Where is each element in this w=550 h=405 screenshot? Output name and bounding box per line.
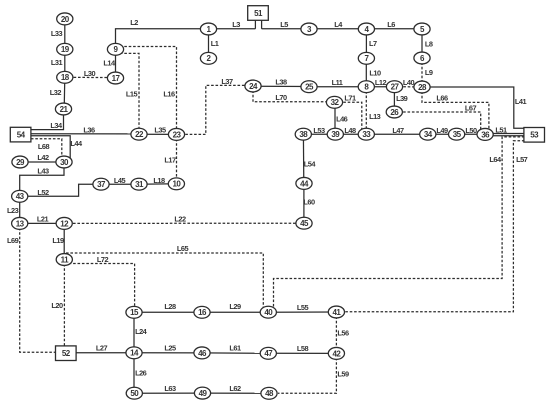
- wire L32: [50, 77, 65, 109]
- svg-text:28: 28: [418, 83, 427, 92]
- bus 46: [194, 347, 210, 359]
- svg-text:34: 34: [424, 130, 433, 139]
- bus 38: [295, 128, 311, 140]
- bus 30: [56, 156, 72, 168]
- wire L14: [103, 49, 116, 78]
- svg-text:20: 20: [61, 15, 70, 24]
- svg-text:L51: L51: [495, 126, 507, 135]
- wire L56: [336, 312, 349, 353]
- bus 33: [358, 128, 374, 140]
- substation 53: [524, 128, 545, 143]
- svg-text:L52: L52: [37, 188, 49, 197]
- wire L3: [209, 20, 256, 29]
- wire L68: [31, 139, 62, 158]
- bus 27: [386, 81, 402, 93]
- svg-text:33: 33: [362, 130, 371, 139]
- svg-text:L37: L37: [221, 77, 233, 86]
- wire L64: [274, 137, 525, 312]
- wire L40: [395, 78, 423, 87]
- wire L35: [139, 126, 177, 135]
- svg-text:L71: L71: [344, 94, 356, 103]
- svg-text:L18: L18: [153, 176, 165, 185]
- svg-text:L59: L59: [337, 370, 349, 379]
- svg-text:35: 35: [453, 130, 462, 139]
- wire L16: [116, 47, 177, 131]
- bus 28: [414, 81, 430, 93]
- wire L29: [202, 302, 268, 312]
- svg-text:L3: L3: [232, 20, 240, 29]
- wire L49: [428, 126, 457, 135]
- svg-text:46: 46: [198, 349, 207, 358]
- svg-text:L4: L4: [334, 20, 343, 29]
- bus 44: [296, 177, 312, 189]
- wire L38: [253, 78, 309, 87]
- bus 3: [301, 23, 317, 35]
- svg-text:L65: L65: [177, 244, 189, 253]
- wire L45: [101, 176, 139, 185]
- wire L26: [134, 353, 147, 393]
- wire L55: [268, 303, 336, 312]
- wire L28: [134, 302, 202, 312]
- svg-text:30: 30: [60, 158, 69, 167]
- svg-text:L8: L8: [425, 40, 433, 49]
- svg-text:12: 12: [60, 219, 69, 228]
- svg-text:37: 37: [97, 180, 106, 189]
- bus 25: [301, 81, 317, 93]
- bus 34: [420, 128, 436, 140]
- svg-text:51: 51: [254, 9, 263, 18]
- svg-text:L40: L40: [403, 78, 415, 87]
- svg-text:L62: L62: [229, 384, 241, 393]
- bus 17: [107, 72, 123, 84]
- wire L18: [139, 176, 176, 185]
- svg-text:L23: L23: [7, 206, 19, 215]
- bus 1: [200, 23, 216, 35]
- svg-text:L12: L12: [375, 78, 387, 87]
- wire L61: [202, 344, 268, 354]
- bus 41: [328, 306, 344, 318]
- svg-text:L10: L10: [369, 69, 381, 78]
- svg-text:L31: L31: [51, 58, 63, 67]
- wire L1: [209, 29, 219, 58]
- svg-text:L9: L9: [425, 68, 433, 77]
- bus 42: [328, 347, 344, 359]
- wire L11: [309, 78, 366, 87]
- wire L44: [31, 136, 83, 159]
- svg-text:L13: L13: [369, 112, 381, 121]
- bus 20: [57, 13, 73, 25]
- bus 36: [477, 128, 493, 140]
- wire L39: [394, 87, 407, 112]
- svg-text:21: 21: [60, 105, 69, 114]
- svg-text:L63: L63: [164, 384, 176, 393]
- svg-text:L36: L36: [83, 126, 95, 135]
- wire L13: [366, 87, 380, 135]
- svg-text:L35: L35: [154, 126, 166, 135]
- wire L65: [66, 244, 263, 312]
- bus 47: [260, 347, 276, 359]
- wire L48: [335, 126, 366, 135]
- bus 19: [57, 43, 73, 55]
- wire L19: [52, 223, 64, 259]
- bus 39: [327, 128, 343, 140]
- svg-text:26: 26: [390, 108, 399, 117]
- svg-text:L11: L11: [332, 78, 343, 87]
- svg-text:47: 47: [264, 349, 273, 358]
- svg-text:44: 44: [300, 179, 309, 188]
- bus 4: [358, 23, 374, 35]
- svg-text:18: 18: [61, 73, 70, 82]
- svg-text:38: 38: [299, 130, 308, 139]
- wire L24: [134, 312, 148, 353]
- svg-text:L60: L60: [303, 197, 315, 206]
- wire L9: [422, 58, 433, 87]
- svg-text:32: 32: [331, 98, 340, 107]
- svg-text:L26: L26: [135, 369, 147, 378]
- wire 51lega: [254, 21, 256, 29]
- svg-text:27: 27: [391, 83, 400, 92]
- wire L2: [116, 18, 209, 49]
- svg-text:53: 53: [530, 131, 539, 140]
- svg-text:L2: L2: [130, 18, 138, 27]
- svg-text:L15: L15: [126, 90, 138, 99]
- svg-text:L32: L32: [50, 88, 62, 97]
- svg-text:17: 17: [112, 74, 121, 83]
- wire L60: [303, 183, 315, 223]
- wire L62: [203, 384, 270, 393]
- svg-text:L42: L42: [37, 153, 49, 162]
- svg-text:10: 10: [172, 180, 181, 189]
- svg-text:L17: L17: [164, 156, 176, 165]
- svg-text:L27: L27: [96, 344, 108, 353]
- wire L8: [422, 29, 433, 58]
- svg-text:L55: L55: [297, 303, 309, 312]
- svg-text:L19: L19: [52, 236, 64, 245]
- svg-text:L20: L20: [51, 301, 63, 310]
- svg-text:L21: L21: [37, 214, 49, 223]
- wire L20: [51, 260, 64, 347]
- wire L17: [164, 134, 176, 183]
- bus 2: [200, 52, 216, 64]
- bus 12: [56, 217, 72, 229]
- bus 7: [358, 52, 374, 64]
- wire L42: [20, 153, 64, 162]
- svg-text:42: 42: [332, 349, 341, 358]
- bus 32: [326, 96, 342, 108]
- wire L27: [76, 344, 134, 353]
- wire L5: [262, 20, 309, 29]
- bus 15: [126, 306, 142, 318]
- svg-text:L70: L70: [275, 93, 287, 102]
- wire L22: [64, 214, 304, 223]
- svg-text:L34: L34: [50, 121, 63, 130]
- wire L31: [51, 49, 65, 77]
- wire L46: [335, 102, 348, 134]
- bus 40: [260, 306, 276, 318]
- bus 49: [194, 387, 210, 399]
- wire L72: [64, 255, 134, 308]
- bus 11: [56, 254, 72, 266]
- svg-text:L5: L5: [280, 20, 288, 29]
- svg-text:L49: L49: [436, 126, 448, 135]
- svg-text:16: 16: [198, 308, 207, 317]
- bus 18: [57, 71, 73, 83]
- svg-text:40: 40: [264, 308, 273, 317]
- bus 13: [12, 217, 28, 229]
- wire L70: [253, 86, 330, 102]
- bus 29: [12, 156, 28, 168]
- bus 8: [358, 81, 374, 93]
- svg-text:19: 19: [61, 45, 70, 54]
- bus 16: [194, 306, 210, 318]
- svg-text:L43: L43: [37, 166, 49, 175]
- svg-text:43: 43: [16, 192, 25, 201]
- svg-text:L6: L6: [387, 20, 395, 29]
- wire L21: [20, 214, 64, 223]
- wire L43: [20, 162, 64, 196]
- wire L37: [177, 77, 254, 134]
- bus 37: [93, 178, 109, 190]
- bus 24: [245, 80, 261, 92]
- svg-text:L38: L38: [275, 78, 287, 87]
- wire 51legb: [261, 21, 263, 29]
- wire L69: [7, 223, 56, 352]
- wire L41: [422, 87, 526, 128]
- svg-text:45: 45: [300, 219, 309, 228]
- bus 50: [126, 387, 142, 399]
- wire L34: [31, 109, 64, 130]
- bus 10: [168, 178, 184, 190]
- wire L53: [303, 126, 335, 135]
- svg-text:49: 49: [199, 389, 208, 398]
- svg-text:L64: L64: [489, 155, 502, 164]
- wire L50: [457, 126, 486, 135]
- wire L66: [422, 87, 489, 131]
- svg-text:29: 29: [16, 158, 25, 167]
- svg-text:L48: L48: [344, 126, 356, 135]
- svg-text:25: 25: [305, 83, 314, 92]
- substation 51: [248, 6, 269, 21]
- svg-text:48: 48: [265, 389, 274, 398]
- svg-text:L28: L28: [164, 302, 176, 311]
- wire L52: [20, 184, 101, 197]
- wire L10: [366, 58, 381, 86]
- wire L67: [394, 103, 480, 131]
- svg-text:31: 31: [135, 180, 144, 189]
- svg-text:39: 39: [331, 130, 340, 139]
- svg-text:L68: L68: [38, 142, 50, 151]
- wire L47: [366, 126, 428, 135]
- wire L54: [303, 134, 316, 183]
- bus 5: [414, 23, 430, 35]
- svg-text:L66: L66: [436, 93, 448, 102]
- svg-text:22: 22: [135, 130, 144, 139]
- bus 43: [12, 190, 28, 202]
- wire L51a: [485, 126, 524, 135]
- svg-text:L57: L57: [516, 155, 528, 164]
- wire L6: [366, 20, 422, 29]
- svg-text:L22: L22: [174, 214, 186, 223]
- wire L30: [65, 69, 116, 78]
- substation 54: [10, 127, 31, 142]
- bus 23: [168, 128, 184, 140]
- svg-text:L44: L44: [70, 139, 83, 148]
- bus 45: [296, 217, 312, 229]
- wire L12: [366, 78, 394, 87]
- svg-text:L1: L1: [211, 39, 219, 48]
- svg-text:L14: L14: [103, 59, 116, 68]
- svg-text:L29: L29: [229, 302, 241, 311]
- bus 35: [449, 128, 465, 140]
- wire L36: [31, 126, 139, 135]
- svg-text:L72: L72: [97, 255, 109, 264]
- svg-text:52: 52: [62, 349, 71, 358]
- wire L63: [134, 384, 202, 393]
- svg-text:L46: L46: [336, 115, 348, 124]
- svg-text:L56: L56: [337, 329, 349, 338]
- svg-text:L39: L39: [396, 94, 408, 103]
- wire L33: [51, 19, 65, 49]
- svg-text:13: 13: [16, 219, 25, 228]
- svg-text:L16: L16: [163, 90, 175, 99]
- bus 22: [131, 128, 147, 140]
- svg-text:L67: L67: [465, 103, 477, 112]
- svg-text:L69: L69: [7, 236, 19, 245]
- wire L51b: [485, 135, 524, 137]
- wire L15: [116, 53, 140, 130]
- substation 52: [56, 346, 77, 361]
- svg-text:50: 50: [130, 389, 139, 398]
- wire L59: [278, 353, 349, 393]
- svg-text:L25: L25: [164, 344, 176, 353]
- bus 31: [131, 178, 147, 190]
- svg-text:41: 41: [332, 308, 341, 317]
- bus 21: [55, 103, 71, 115]
- svg-text:24: 24: [249, 82, 258, 91]
- wire L7: [366, 29, 377, 58]
- svg-text:23: 23: [173, 130, 182, 139]
- svg-text:L45: L45: [114, 176, 126, 185]
- svg-text:L61: L61: [229, 344, 241, 353]
- bus 14: [126, 347, 142, 359]
- wire L57: [345, 141, 528, 312]
- svg-text:L58: L58: [297, 344, 309, 353]
- svg-text:14: 14: [130, 349, 139, 358]
- bus 6: [414, 52, 430, 64]
- bus 48: [261, 387, 277, 399]
- svg-text:L41: L41: [515, 97, 527, 106]
- svg-text:11: 11: [61, 255, 69, 264]
- svg-text:L30: L30: [84, 69, 96, 78]
- wire L71: [335, 94, 362, 131]
- wire L58: [268, 344, 336, 354]
- wire L25: [134, 344, 202, 353]
- svg-text:L50: L50: [465, 126, 477, 135]
- svg-text:54: 54: [17, 131, 26, 140]
- wire L4: [309, 20, 366, 29]
- svg-text:L33: L33: [51, 29, 63, 38]
- svg-text:15: 15: [130, 308, 139, 317]
- svg-text:L24: L24: [135, 327, 148, 336]
- svg-text:L54: L54: [304, 159, 317, 168]
- svg-text:36: 36: [481, 130, 490, 139]
- bus 26: [386, 106, 402, 118]
- svg-text:L7: L7: [369, 39, 377, 48]
- wire L23: [7, 196, 20, 223]
- svg-text:L53: L53: [313, 126, 325, 135]
- bus 9: [107, 43, 123, 55]
- svg-text:L47: L47: [392, 126, 404, 135]
